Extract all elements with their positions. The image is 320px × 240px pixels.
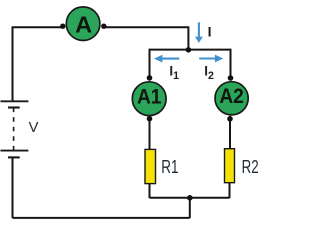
node dot right of A: [101, 24, 106, 29]
wire bottom branch horizontal: [150, 197, 230, 199]
wire top-left horizontal: [13, 26, 63, 28]
ammeter A1: [132, 82, 166, 116]
svg-text:V: V: [29, 120, 39, 136]
current arrow I: [195, 22, 203, 43]
current arrow I1: [154, 55, 179, 63]
wire bottom junction down: [189, 198, 191, 218]
wire battery bottom vertical: [12, 157, 14, 218]
node dot below A2: [227, 116, 233, 122]
node dot above A2: [228, 75, 234, 81]
wire branch horizontal: [150, 49, 231, 51]
ammeter A: [66, 7, 100, 41]
svg-text:A1: A1: [137, 84, 162, 108]
resistor R2: [225, 149, 235, 183]
svg-text:I: I: [208, 24, 212, 40]
wire bottom long horizontal: [13, 217, 190, 219]
wire down to branch junction: [187, 26, 189, 50]
wire A2 to R2: [229, 116, 231, 149]
svg-text:A2: A2: [219, 84, 244, 108]
node dot above A1: [147, 75, 153, 81]
svg-text:R2: R2: [242, 156, 259, 177]
wire branch down to A2: [230, 49, 232, 78]
svg-text:A: A: [75, 11, 92, 37]
wire left vertical: [12, 26, 14, 101]
wire R2 to bottom branch: [229, 182, 231, 198]
wire A1 to R1: [149, 116, 151, 150]
current arrow I2: [199, 55, 223, 63]
wire branch down to A1: [149, 49, 151, 78]
svg-text:R1: R1: [161, 156, 178, 177]
node dot below A1: [147, 116, 153, 122]
resistor R1: [145, 149, 156, 183]
node junction top: [186, 47, 192, 53]
ammeter A2: [215, 82, 248, 115]
node junction bottom: [187, 195, 193, 201]
battery V: [1, 101, 29, 157]
wire R1 to bottom branch: [149, 183, 151, 198]
node dot left of A: [60, 24, 65, 29]
wire top-right horizontal: [104, 26, 189, 28]
